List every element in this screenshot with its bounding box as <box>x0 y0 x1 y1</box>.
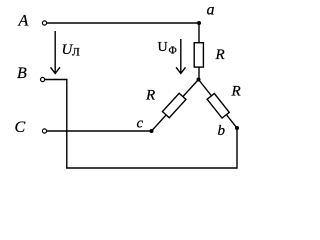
svg-text:A: A <box>18 13 29 30</box>
wire star point to resistor right diagonal <box>199 80 238 129</box>
wire star point to resistor left diagonal <box>152 80 199 132</box>
wire phase A horizontal <box>47 22 199 24</box>
arrow U line voltage (shaft) <box>54 31 56 73</box>
wire resistor R bottom to star point <box>198 67 200 79</box>
svg-text:Ф: Ф <box>169 46 177 57</box>
terminal C circle <box>42 129 46 133</box>
node c junction dot <box>150 129 154 133</box>
arrowhead U line voltage <box>51 67 60 73</box>
svg-text:a: a <box>207 2 215 19</box>
resistor R (phase a, vertical) <box>194 43 203 67</box>
svg-text:Л: Л <box>72 46 80 58</box>
svg-text:b: b <box>218 123 226 139</box>
node b junction dot <box>235 126 239 130</box>
arrowhead U phase voltage <box>176 67 185 73</box>
wire node a to resistor R top <box>198 23 200 43</box>
star point node junction dot <box>197 78 201 82</box>
svg-text:R: R <box>145 88 155 104</box>
svg-text:R: R <box>231 84 241 100</box>
arrow U phase voltage (shaft) <box>180 39 182 73</box>
svg-text:c: c <box>137 116 144 132</box>
svg-text:B: B <box>17 65 27 82</box>
svg-text:R: R <box>215 47 225 63</box>
terminal A circle <box>42 21 46 25</box>
terminal B circle <box>41 77 45 81</box>
wire phase C horizontal <box>47 130 152 132</box>
node a junction dot <box>197 21 201 25</box>
resistor R (phase c, diagonal) <box>162 93 186 118</box>
svg-text:C: C <box>15 119 26 136</box>
wire phase B: right, down, along bottom, up to node b <box>45 80 237 169</box>
resistor R (phase b, diagonal) <box>207 94 229 119</box>
svg-text:U: U <box>158 40 168 55</box>
